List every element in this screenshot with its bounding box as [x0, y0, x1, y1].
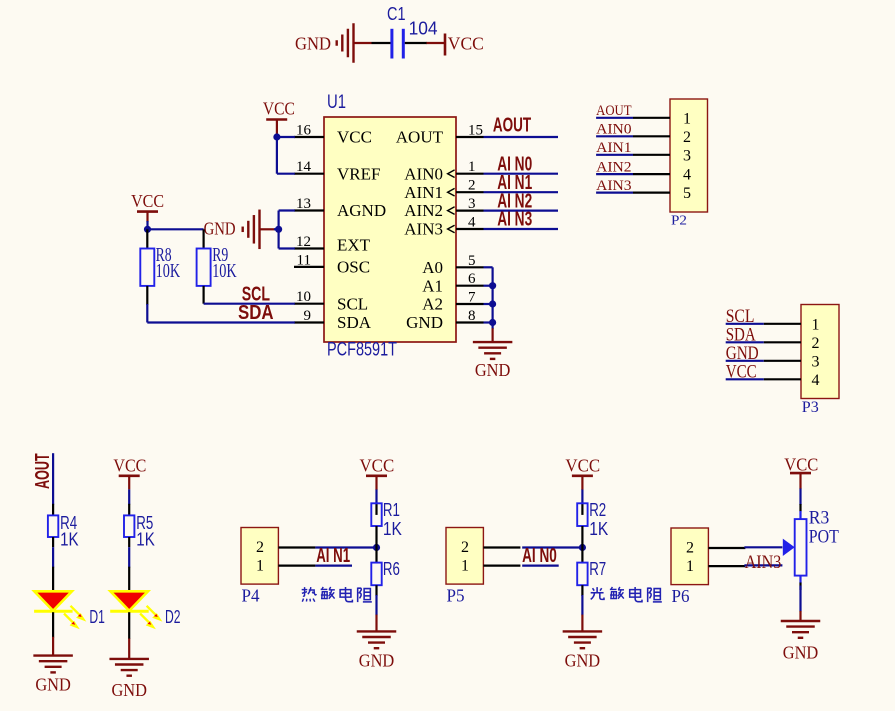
svg-text:VCC: VCC [360, 456, 395, 476]
svg-text:VCC: VCC [448, 34, 484, 54]
svg-text:AIN3: AIN3 [745, 552, 782, 573]
svg-text:AIN3: AIN3 [404, 220, 443, 239]
svg-text:A2: A2 [422, 295, 443, 314]
svg-text:1: 1 [468, 159, 476, 175]
svg-text:11: 11 [297, 252, 311, 268]
svg-text:1K: 1K [589, 519, 608, 539]
svg-text:AIN0: AIN0 [404, 164, 443, 183]
svg-text:6: 6 [468, 271, 476, 287]
svg-text:4: 4 [683, 167, 691, 184]
svg-text:VCC: VCC [565, 456, 600, 476]
svg-text:AOUT: AOUT [32, 453, 54, 489]
svg-text:7: 7 [468, 290, 476, 306]
svg-text:P2: P2 [671, 214, 687, 229]
svg-text:VCC: VCC [337, 128, 372, 147]
svg-text:5: 5 [683, 185, 691, 202]
svg-text:GND: GND [783, 643, 819, 663]
svg-text:2: 2 [468, 178, 476, 194]
svg-text:13: 13 [296, 196, 311, 212]
svg-text:P6: P6 [672, 586, 690, 606]
svg-text:AIN2: AIN2 [404, 201, 443, 220]
svg-text:AIN1: AIN1 [404, 183, 443, 202]
svg-text:AOUT: AOUT [493, 114, 531, 136]
svg-text:GND: GND [475, 360, 511, 380]
svg-text:GND: GND [111, 680, 147, 700]
svg-text:R1: R1 [383, 500, 400, 520]
svg-text:A0: A0 [422, 258, 443, 277]
svg-text:1: 1 [461, 558, 469, 575]
svg-text:R6: R6 [383, 559, 400, 579]
svg-text:D1: D1 [89, 607, 105, 627]
svg-text:AGND: AGND [337, 201, 386, 220]
svg-text:SDA: SDA [337, 313, 372, 332]
svg-text:AOUT: AOUT [396, 128, 444, 147]
svg-text:2: 2 [461, 539, 469, 556]
svg-text:P3: P3 [802, 399, 819, 416]
svg-text:AIN3: AIN3 [596, 178, 632, 194]
svg-text:VREF: VREF [337, 164, 380, 183]
svg-text:POT: POT [809, 527, 839, 548]
svg-text:A1: A1 [422, 276, 443, 295]
svg-text:2: 2 [812, 335, 820, 352]
svg-text:GND: GND [35, 675, 71, 695]
svg-text:GND: GND [204, 219, 236, 239]
svg-text:VCC: VCC [726, 362, 757, 383]
svg-text:AI N1: AI N1 [316, 545, 350, 567]
svg-text:1K: 1K [136, 529, 155, 549]
svg-text:VCC: VCC [113, 456, 146, 476]
svg-text:4: 4 [812, 372, 820, 389]
svg-text:104: 104 [409, 19, 438, 39]
svg-text:8: 8 [468, 308, 476, 324]
svg-text:PCF8591T: PCF8591T [327, 340, 397, 361]
svg-text:2: 2 [683, 129, 691, 146]
svg-text:1: 1 [683, 110, 691, 127]
svg-text:GND: GND [295, 34, 331, 54]
svg-text:OSC: OSC [337, 258, 370, 277]
svg-text:GND: GND [565, 651, 601, 671]
svg-text:12: 12 [296, 234, 311, 250]
svg-text:P5: P5 [447, 586, 465, 606]
svg-text:10: 10 [296, 289, 311, 305]
svg-text:D2: D2 [165, 607, 181, 627]
svg-text:EXT: EXT [337, 236, 371, 255]
svg-text:R3: R3 [809, 508, 830, 529]
svg-text:AIN0: AIN0 [596, 122, 632, 138]
svg-text:15: 15 [468, 123, 483, 139]
svg-text:AIN2: AIN2 [596, 159, 632, 175]
svg-text:GND: GND [359, 651, 395, 671]
svg-text:1K: 1K [383, 519, 402, 539]
svg-text:10K: 10K [212, 260, 237, 282]
svg-text:1: 1 [686, 558, 694, 575]
svg-text:AOUT: AOUT [596, 103, 632, 119]
svg-text:U1: U1 [327, 92, 346, 113]
svg-text:SCL: SCL [337, 294, 368, 313]
svg-text:P4: P4 [242, 586, 260, 606]
svg-text:5: 5 [468, 253, 476, 269]
svg-text:R7: R7 [589, 559, 606, 579]
svg-text:VCC: VCC [784, 455, 818, 475]
svg-text:14: 14 [296, 159, 312, 175]
svg-text:1: 1 [256, 558, 264, 575]
svg-text:R2: R2 [589, 500, 606, 520]
svg-text:3: 3 [812, 353, 820, 370]
svg-text:3: 3 [683, 147, 691, 164]
svg-text:4: 4 [468, 215, 476, 231]
svg-text:9: 9 [304, 308, 312, 324]
svg-text:VCC: VCC [263, 99, 295, 119]
svg-text:10K: 10K [156, 260, 181, 282]
svg-text:16: 16 [296, 123, 312, 139]
svg-text:GND: GND [406, 313, 443, 332]
svg-text:AI N3: AI N3 [497, 209, 532, 231]
svg-text:2: 2 [686, 540, 694, 557]
svg-text:2: 2 [256, 539, 264, 556]
svg-text:C1: C1 [387, 4, 406, 24]
svg-text:VCC: VCC [131, 191, 164, 211]
svg-text:1K: 1K [60, 529, 79, 549]
svg-text:AIN1: AIN1 [596, 140, 632, 156]
svg-text:SDA: SDA [238, 302, 274, 324]
svg-text:1: 1 [812, 316, 820, 333]
svg-text:AI N0: AI N0 [522, 545, 557, 567]
svg-text:3: 3 [468, 196, 476, 212]
